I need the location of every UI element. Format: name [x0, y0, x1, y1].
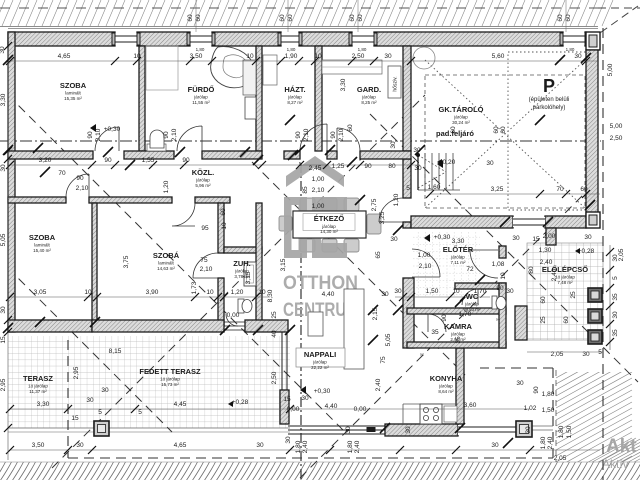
svg-text:WC: WC — [466, 292, 479, 301]
wall szoba north seg1 — [89, 197, 172, 203]
svg-text:30: 30 — [390, 141, 397, 149]
dim garage south row — [430, 193, 600, 195]
wc1 toilet — [492, 296, 497, 309]
furdo cabinet NW — [146, 46, 178, 90]
wall szoba-bl north seg0 — [8, 197, 66, 203]
svg-text:8,25 m²: 8,25 m² — [361, 100, 377, 105]
svg-text:30: 30 — [76, 442, 84, 449]
svg-text:2,75: 2,75 — [371, 198, 378, 211]
svg-text:30: 30 — [491, 442, 499, 449]
svg-text:30: 30 — [0, 46, 6, 54]
svg-text:15,35 m²: 15,35 m² — [64, 96, 82, 101]
svg-text:TERASZ: TERASZ — [23, 374, 53, 383]
terrace column SW — [94, 421, 109, 436]
porch pier 3 — [588, 330, 602, 344]
svg-text:11,37 m²: 11,37 m² — [29, 389, 47, 394]
window W3 top wall — [278, 33, 302, 45]
porch pier 1 — [588, 288, 602, 302]
svg-text:30: 30 — [394, 288, 402, 295]
wall konyha east — [456, 348, 464, 424]
furdo cabinet — [243, 60, 256, 95]
svg-text:(épületen belüli: (épületen belüli — [529, 97, 570, 103]
svg-text:30: 30 — [612, 311, 619, 319]
furdo washbasin — [147, 144, 166, 151]
window W1 top wall — [112, 33, 140, 45]
gk.tarolo circle — [413, 47, 435, 69]
svg-text:15,73 m²: 15,73 m² — [161, 382, 179, 387]
svg-text:járólap: járólap — [195, 178, 210, 183]
svg-text:parkolóhely): parkolóhely) — [533, 105, 566, 111]
etkezo chair left — [279, 216, 292, 231]
svg-text:2,40: 2,40 — [547, 436, 554, 449]
wall south rooms seg3 — [245, 320, 288, 332]
svg-text:3,50: 3,50 — [190, 53, 203, 60]
dim row E bottom — [10, 449, 600, 451]
svg-text:járólap: járólap — [450, 332, 465, 337]
elolepcso tile grid — [527, 243, 603, 340]
svg-text:5: 5 — [406, 185, 410, 192]
svg-text:1,73: 1,73 — [191, 281, 198, 294]
wall spine entry vertical — [403, 278, 414, 348]
roof diagonal D4 — [370, 114, 638, 382]
svg-text:30: 30 — [525, 426, 532, 434]
svg-text:1,30: 1,30 — [539, 247, 552, 254]
door hazt — [300, 124, 327, 151]
svg-text:0,00: 0,00 — [354, 406, 367, 413]
dim row C — [10, 296, 270, 298]
wall wc-kamra east vertical — [499, 283, 506, 348]
wall top exterior seg D — [299, 32, 352, 46]
svg-text:11,55 m²: 11,55 m² — [192, 100, 210, 105]
svg-text:2,40: 2,40 — [354, 440, 361, 453]
dim porch bottom — [527, 351, 603, 353]
svg-text:15: 15 — [283, 396, 291, 403]
nappali label box — [296, 348, 345, 367]
svg-text:5,00: 5,00 — [607, 63, 614, 76]
svg-text:GK.TÁROLÓ: GK.TÁROLÓ — [439, 105, 484, 114]
svg-text:2,10: 2,10 — [303, 128, 310, 141]
svg-text:2,10: 2,10 — [200, 266, 213, 273]
svg-text:járólap: járólap — [450, 255, 465, 260]
svg-text:1,20: 1,20 — [163, 180, 170, 193]
svg-text:25: 25 — [540, 316, 547, 324]
svg-text:7,11 m²: 7,11 m² — [451, 260, 466, 265]
svg-text:60: 60 — [493, 126, 500, 134]
svg-text:4,40: 4,40 — [322, 291, 335, 298]
svg-text:4,65: 4,65 — [58, 53, 71, 60]
wall top exterior seg C — [212, 32, 281, 46]
door wc1 — [462, 289, 478, 305]
svg-text:90: 90 — [441, 314, 448, 322]
wall kamra south / konyha north — [407, 342, 506, 348]
wall garage south seg a — [411, 216, 513, 228]
kitchen sink — [444, 406, 457, 422]
svg-text:90: 90 — [364, 163, 372, 170]
svg-text:2,95: 2,95 — [73, 366, 80, 379]
svg-text:22,22 m²: 22,22 m² — [311, 365, 329, 370]
roof dashed line in top band — [0, 7, 598, 9]
svg-text:1,80: 1,80 — [558, 425, 565, 438]
svg-text:30: 30 — [512, 235, 520, 242]
wall corridor north seg1 — [8, 151, 93, 159]
svg-text:1,70: 1,70 — [459, 311, 472, 318]
svg-text:4,65: 4,65 — [174, 442, 187, 449]
svg-text:8,27 m²: 8,27 m² — [287, 100, 303, 105]
wall porch west edge — [515, 306, 527, 340]
dim row A — [10, 60, 598, 62]
wall spine lower — [403, 222, 411, 228]
svg-text:90: 90 — [87, 131, 94, 139]
konyha south window — [458, 425, 516, 435]
svg-text:60: 60 — [220, 208, 227, 216]
gard wardrobe — [322, 60, 382, 74]
svg-text:+0,30: +0,30 — [314, 388, 331, 395]
svg-text:1,55: 1,55 — [142, 157, 155, 164]
wall wc/kamra divider — [407, 308, 506, 314]
nappali sofa — [344, 289, 364, 369]
svg-text:10: 10 — [452, 288, 460, 295]
svg-text:10: 10 — [206, 289, 214, 296]
wall zuh north — [224, 247, 262, 253]
wall right exterior garage — [586, 50, 598, 216]
door szoba1 — [95, 127, 119, 151]
svg-text:90: 90 — [104, 157, 112, 164]
svg-text:1,80: 1,80 — [358, 47, 367, 52]
etkezo table over watermark — [293, 211, 366, 238]
svg-text:10: 10 — [314, 53, 322, 60]
hazt appliances — [263, 55, 277, 85]
svg-text:2,10: 2,10 — [419, 263, 432, 270]
svg-text:1,80: 1,80 — [542, 391, 555, 398]
door eloter west — [412, 249, 440, 277]
wall spine mid — [403, 159, 411, 198]
wall eloter east stub — [499, 246, 506, 258]
svg-text:járólap: járólap — [234, 269, 249, 274]
svg-text:95: 95 — [201, 225, 209, 232]
door stairs — [379, 198, 403, 222]
svg-text:90: 90 — [330, 131, 337, 139]
svg-text:2,95: 2,95 — [0, 378, 7, 391]
svg-text:járólap: járólap — [287, 95, 302, 100]
svg-text:75: 75 — [200, 257, 208, 264]
svg-text:8,30: 8,30 — [267, 289, 274, 302]
dim kamra row — [395, 296, 490, 298]
wall corridor north seg4 — [284, 151, 300, 159]
svg-text:60: 60 — [349, 14, 356, 22]
svg-text:30: 30 — [516, 380, 524, 387]
svg-text:1,20: 1,20 — [393, 193, 400, 206]
wall corridor north seg3 — [202, 151, 262, 159]
door furdo — [177, 126, 202, 151]
svg-text:30: 30 — [584, 234, 592, 241]
svg-text:3,78 m²: 3,78 m² — [234, 274, 250, 279]
roof diagonal D2 — [8, 268, 172, 432]
svg-text:Aktív: Aktív — [602, 457, 629, 471]
wall top exterior seg F — [585, 32, 586, 46]
svg-text:2,10: 2,10 — [171, 128, 178, 141]
svg-text:30: 30 — [574, 53, 582, 60]
svg-text:járólap: járólap — [361, 95, 376, 100]
svg-text:járólap: járólap — [464, 302, 479, 307]
wall hazt/gard vertical — [315, 46, 322, 151]
porch pier 2 — [588, 309, 602, 323]
svg-text:2,50: 2,50 — [610, 135, 623, 142]
svg-text:5,96 m²: 5,96 m² — [195, 183, 211, 188]
watermark OC logo chevron — [283, 156, 359, 321]
svg-text:14,63 m²: 14,63 m² — [157, 266, 175, 271]
svg-text:+0,28: +0,28 — [232, 399, 249, 406]
svg-text:SZOBÁ: SZOBÁ — [153, 251, 180, 260]
svg-text:laminált: laminált — [34, 243, 50, 248]
wall wc north — [455, 283, 506, 289]
svg-text:30: 30 — [285, 436, 292, 444]
svg-text:+0,28: +0,28 — [578, 248, 595, 255]
roof diagonal D1 — [8, 95, 345, 432]
svg-text:2,05: 2,05 — [554, 455, 567, 462]
svg-text:30: 30 — [301, 395, 309, 402]
bottom terrain hatch — [0, 459, 640, 480]
svg-text:1,20: 1,20 — [231, 289, 244, 296]
svg-text:85: 85 — [302, 186, 309, 194]
svg-text:30: 30 — [405, 426, 412, 434]
svg-text:1,08: 1,08 — [492, 261, 505, 268]
svg-text:0,00: 0,00 — [227, 312, 240, 319]
wall szoba2 east vertical — [218, 203, 224, 253]
sill lines east of column — [532, 426, 553, 430]
svg-text:wl,53 m²: wl,53 m² — [463, 307, 481, 312]
roof overhang dashed bottom — [68, 340, 553, 458]
property dashed vertical right — [602, 28, 604, 480]
top terrain hatch band — [0, 0, 613, 26]
svg-text:1,80: 1,80 — [287, 47, 296, 52]
svg-text:65: 65 — [375, 251, 382, 259]
svg-text:3,05: 3,05 — [34, 289, 47, 296]
svg-text:1,00: 1,00 — [312, 203, 325, 210]
svg-text:90: 90 — [496, 285, 504, 292]
svg-text:14,30 m²: 14,30 m² — [320, 229, 338, 234]
svg-text:3,20: 3,20 — [39, 157, 52, 164]
furdo washing machine — [245, 97, 256, 119]
svg-text:10: 10 — [84, 289, 92, 296]
svg-text:3,90: 3,90 — [146, 289, 159, 296]
wall garage south seg b — [545, 216, 586, 228]
svg-text:30: 30 — [381, 291, 389, 298]
svg-text:25: 25 — [570, 291, 577, 299]
svg-text:60: 60 — [557, 14, 564, 22]
svg-text:1,50: 1,50 — [566, 425, 573, 438]
nappali west window wall — [282, 332, 287, 424]
window W4 top wall — [349, 33, 377, 45]
wall corridor north seg2 — [124, 151, 174, 159]
right terrain hatch region — [556, 330, 640, 480]
kitchen stove — [420, 404, 442, 424]
svg-text:60: 60 — [187, 14, 194, 22]
svg-text:laminált: laminált — [158, 261, 174, 266]
svg-text:72: 72 — [466, 266, 474, 273]
svg-text:70: 70 — [556, 186, 564, 193]
wall top exterior seg B — [137, 32, 190, 46]
svg-text:5: 5 — [598, 349, 602, 356]
svg-text:90: 90 — [295, 131, 302, 139]
svg-text:SZOBA: SZOBA — [29, 233, 56, 242]
svg-text:25: 25 — [271, 311, 278, 319]
svg-text:KAMRA: KAMRA — [444, 322, 472, 331]
svg-text:2,45: 2,45 — [309, 165, 322, 172]
svg-text:3,60: 3,60 — [464, 402, 477, 409]
svg-text:90: 90 — [182, 157, 190, 164]
svg-text:1,80: 1,80 — [347, 440, 354, 453]
wall konyha south — [385, 424, 458, 436]
svg-text:10: 10 — [500, 272, 507, 280]
svg-text:30: 30 — [486, 160, 494, 167]
wall porch NW connector — [546, 228, 556, 245]
svg-text:80: 80 — [388, 163, 396, 170]
svg-text:2,10: 2,10 — [76, 185, 89, 192]
svg-text:30: 30 — [390, 236, 398, 243]
svg-text:hősziv.: hősziv. — [393, 76, 399, 91]
svg-text:Akt: Akt — [606, 436, 637, 457]
svg-text:3,50: 3,50 — [32, 442, 45, 449]
roof diagonal D5 terrace — [52, 95, 425, 468]
svg-text:FÜRDŐ: FÜRDŐ — [188, 85, 215, 94]
svg-text:1,80: 1,80 — [566, 47, 575, 52]
svg-text:1,80: 1,80 — [540, 436, 547, 449]
roof diagonal D3 — [300, 188, 590, 478]
svg-text:járólap: járólap — [193, 95, 208, 100]
svg-text:10: 10 — [258, 289, 266, 296]
garage SE end cap — [586, 212, 600, 228]
svg-text:3,25: 3,25 — [491, 186, 504, 193]
svg-text:P: P — [543, 76, 555, 96]
wall zuh/wc east vertical — [256, 203, 262, 326]
svg-text:3,25: 3,25 — [379, 211, 386, 224]
wall szoba2 east vertical low — [218, 278, 224, 326]
svg-text:5: 5 — [98, 409, 102, 416]
wall gard/garage spine upper — [403, 46, 411, 151]
step opening 0,00 — [224, 322, 245, 330]
svg-text:2,10: 2,10 — [338, 128, 345, 141]
level marker garage — [437, 160, 443, 168]
svg-text:2,10: 2,10 — [312, 187, 325, 194]
svg-text:H: H — [420, 352, 423, 357]
garage door opening — [513, 217, 545, 227]
garage inner dashed rect — [425, 75, 585, 208]
wall nappali SW post — [280, 390, 289, 424]
svg-text:15: 15 — [0, 336, 7, 344]
eloter dotted tile grid — [413, 232, 480, 298]
wall top exterior seg A — [8, 32, 115, 46]
wall south rooms seg2 — [92, 320, 224, 332]
svg-text:10: 10 — [133, 53, 141, 60]
svg-text:2,10: 2,10 — [95, 128, 102, 141]
door gard — [337, 128, 360, 151]
level marker nappali — [300, 386, 306, 394]
svg-text:0,00: 0,00 — [287, 406, 300, 413]
etkezo chair right — [367, 214, 381, 234]
center dash-dot line — [0, 140, 601, 142]
svg-text:járólap: járólap — [438, 384, 453, 389]
svg-text:10: 10 — [246, 53, 254, 60]
level marker eloter — [424, 234, 430, 242]
svg-text:7,48 m²: 7,48 m² — [557, 280, 573, 285]
kitchen counter — [403, 404, 458, 424]
svg-text:4,45: 4,45 — [174, 401, 187, 408]
svg-text:5,05: 5,05 — [0, 233, 7, 246]
svg-text:60: 60 — [540, 296, 547, 304]
wall top exterior seg E — [374, 32, 563, 46]
door szoba2 — [172, 203, 195, 226]
door wc2 small arc — [226, 314, 238, 326]
wc2 toilet — [238, 299, 244, 313]
wall south rooms seg1 — [8, 320, 92, 332]
svg-text:1,00: 1,00 — [418, 252, 431, 259]
svg-text:90: 90 — [533, 386, 540, 394]
etkezo chairs top — [300, 198, 315, 211]
svg-text:járólap: járólap — [453, 115, 468, 120]
svg-text:15: 15 — [71, 415, 79, 422]
door szoba-bl — [66, 174, 89, 197]
parking P dotted rectangle — [508, 52, 586, 210]
svg-text:1,00: 1,00 — [312, 176, 325, 183]
wall left exterior — [8, 32, 15, 332]
svg-text:1,60: 1,60 — [428, 184, 441, 191]
svg-text:1,02: 1,02 — [524, 405, 537, 412]
dim row B — [10, 164, 420, 166]
bathtub furdo corner — [211, 47, 254, 88]
section line vertical dash-dot — [300, 163, 302, 480]
svg-text:ÉTKEZŐ: ÉTKEZŐ — [314, 214, 345, 223]
svg-text:2,97 m²: 2,97 m² — [450, 337, 466, 342]
svg-text:30: 30 — [0, 306, 7, 314]
svg-text:1,80: 1,80 — [295, 440, 302, 453]
svg-text:2,00: 2,00 — [543, 233, 556, 240]
svg-text:3,30: 3,30 — [340, 78, 347, 91]
svg-text:35: 35 — [612, 329, 619, 337]
terrace tile grid (TERASZ + FEDETT TERASZ) — [8, 336, 290, 428]
svg-text:2,05: 2,05 — [618, 248, 625, 261]
svg-text:+0,30: +0,30 — [434, 234, 451, 241]
svg-text:70: 70 — [58, 170, 66, 177]
svg-text:2,50: 2,50 — [271, 371, 278, 384]
svg-text:90: 90 — [163, 131, 170, 139]
svg-text:8,64 m²: 8,64 m² — [438, 389, 454, 394]
svg-text:NAPPALI: NAPPALI — [304, 350, 336, 359]
window W5 top wall — [560, 33, 588, 45]
svg-text:40: 40 — [271, 330, 278, 338]
svg-text:30: 30 — [414, 165, 422, 172]
svg-text:GARD.: GARD. — [357, 85, 381, 94]
etkezo table — [293, 211, 366, 238]
svg-text:8,15: 8,15 — [109, 348, 122, 355]
svg-text:ELŐLÉPCSŐ: ELŐLÉPCSŐ — [542, 265, 588, 274]
svg-text:30: 30 — [101, 387, 109, 394]
svg-text:30: 30 — [256, 442, 264, 449]
svg-text:3,75: 3,75 — [123, 255, 130, 268]
svg-text:5: 5 — [138, 409, 142, 416]
svg-text:1,80: 1,80 — [196, 47, 205, 52]
svg-text:2,40: 2,40 — [375, 378, 382, 391]
svg-text:30: 30 — [86, 397, 94, 404]
svg-text:5,60: 5,60 — [492, 53, 505, 60]
level marker szoba1 — [90, 124, 96, 132]
svg-text:H: H — [496, 317, 499, 322]
stairs pad.feljaro — [418, 153, 460, 190]
svg-text:60: 60 — [279, 14, 286, 22]
door main entrance — [470, 250, 498, 278]
svg-text:1ó járólap: 1ó járólap — [160, 377, 180, 382]
svg-text:HÁZT.: HÁZT. — [284, 85, 305, 94]
svg-text:30: 30 — [345, 426, 352, 434]
